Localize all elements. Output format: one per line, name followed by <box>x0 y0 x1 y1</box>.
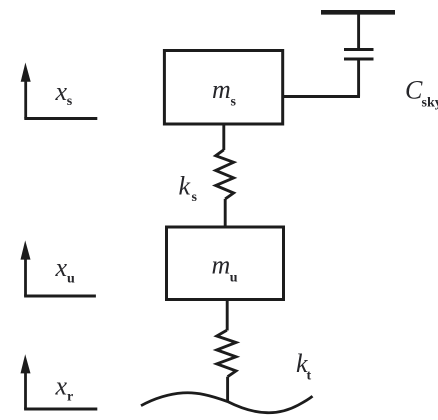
svg-text:u: u <box>230 271 238 286</box>
wire horizontal connector to mass m_s <box>282 95 361 98</box>
mass m_s <box>164 51 282 125</box>
svg-text:s: s <box>231 95 237 110</box>
spring k_t <box>217 330 236 376</box>
svg-text:t: t <box>307 369 312 384</box>
label m_u <box>212 250 238 285</box>
svg-text:x: x <box>55 372 68 401</box>
svg-text:s: s <box>67 94 73 109</box>
svg-text:C: C <box>405 76 423 105</box>
svg-text:m: m <box>212 75 231 104</box>
label x_u <box>55 253 76 286</box>
spring k_s <box>216 150 234 199</box>
axis x_r arrow <box>21 354 98 409</box>
svg-text:r: r <box>67 389 73 404</box>
svg-text:x: x <box>55 253 68 282</box>
svg-text:k: k <box>179 172 191 201</box>
wire damper to horizontal connector <box>357 59 360 97</box>
wire m_u to spring k_t <box>226 300 229 331</box>
label x_s <box>55 77 73 109</box>
svg-text:s: s <box>192 190 198 205</box>
label k_t <box>296 349 312 383</box>
mass m_u <box>167 227 284 300</box>
axis x_s arrow <box>21 63 98 119</box>
label C_sky <box>405 76 438 111</box>
label k_s <box>179 172 198 206</box>
wire spring k_t to road <box>226 377 229 402</box>
svg-text:u: u <box>67 272 75 287</box>
svg-text:sky: sky <box>422 96 438 111</box>
label x_r <box>55 372 74 405</box>
sky reference bar <box>321 10 395 15</box>
road surface <box>141 393 313 413</box>
damper C_sky plates <box>344 50 374 60</box>
svg-text:m: m <box>212 250 231 279</box>
wire m_s to spring k_s <box>222 124 225 150</box>
wire spring k_s to mass m_u <box>224 199 227 227</box>
wire sky bar to damper <box>357 14 360 50</box>
axis x_u arrow <box>21 240 96 296</box>
svg-text:x: x <box>55 77 68 106</box>
label m_s <box>212 75 237 109</box>
